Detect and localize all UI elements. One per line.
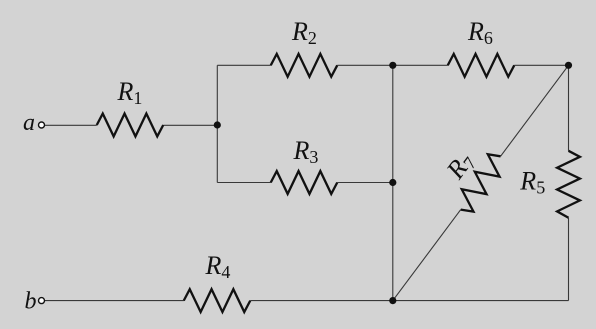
svg-text:R3: R3 xyxy=(293,136,319,167)
svg-text:R2: R2 xyxy=(291,17,317,48)
svg-text:R4: R4 xyxy=(205,251,231,282)
svg-text:R6: R6 xyxy=(467,17,493,48)
svg-text:R5: R5 xyxy=(519,167,545,198)
svg-text:R7: R7 xyxy=(440,147,480,186)
svg-text:R1: R1 xyxy=(117,77,143,108)
svg-text:a: a xyxy=(23,110,35,136)
svg-text:b: b xyxy=(25,288,37,314)
